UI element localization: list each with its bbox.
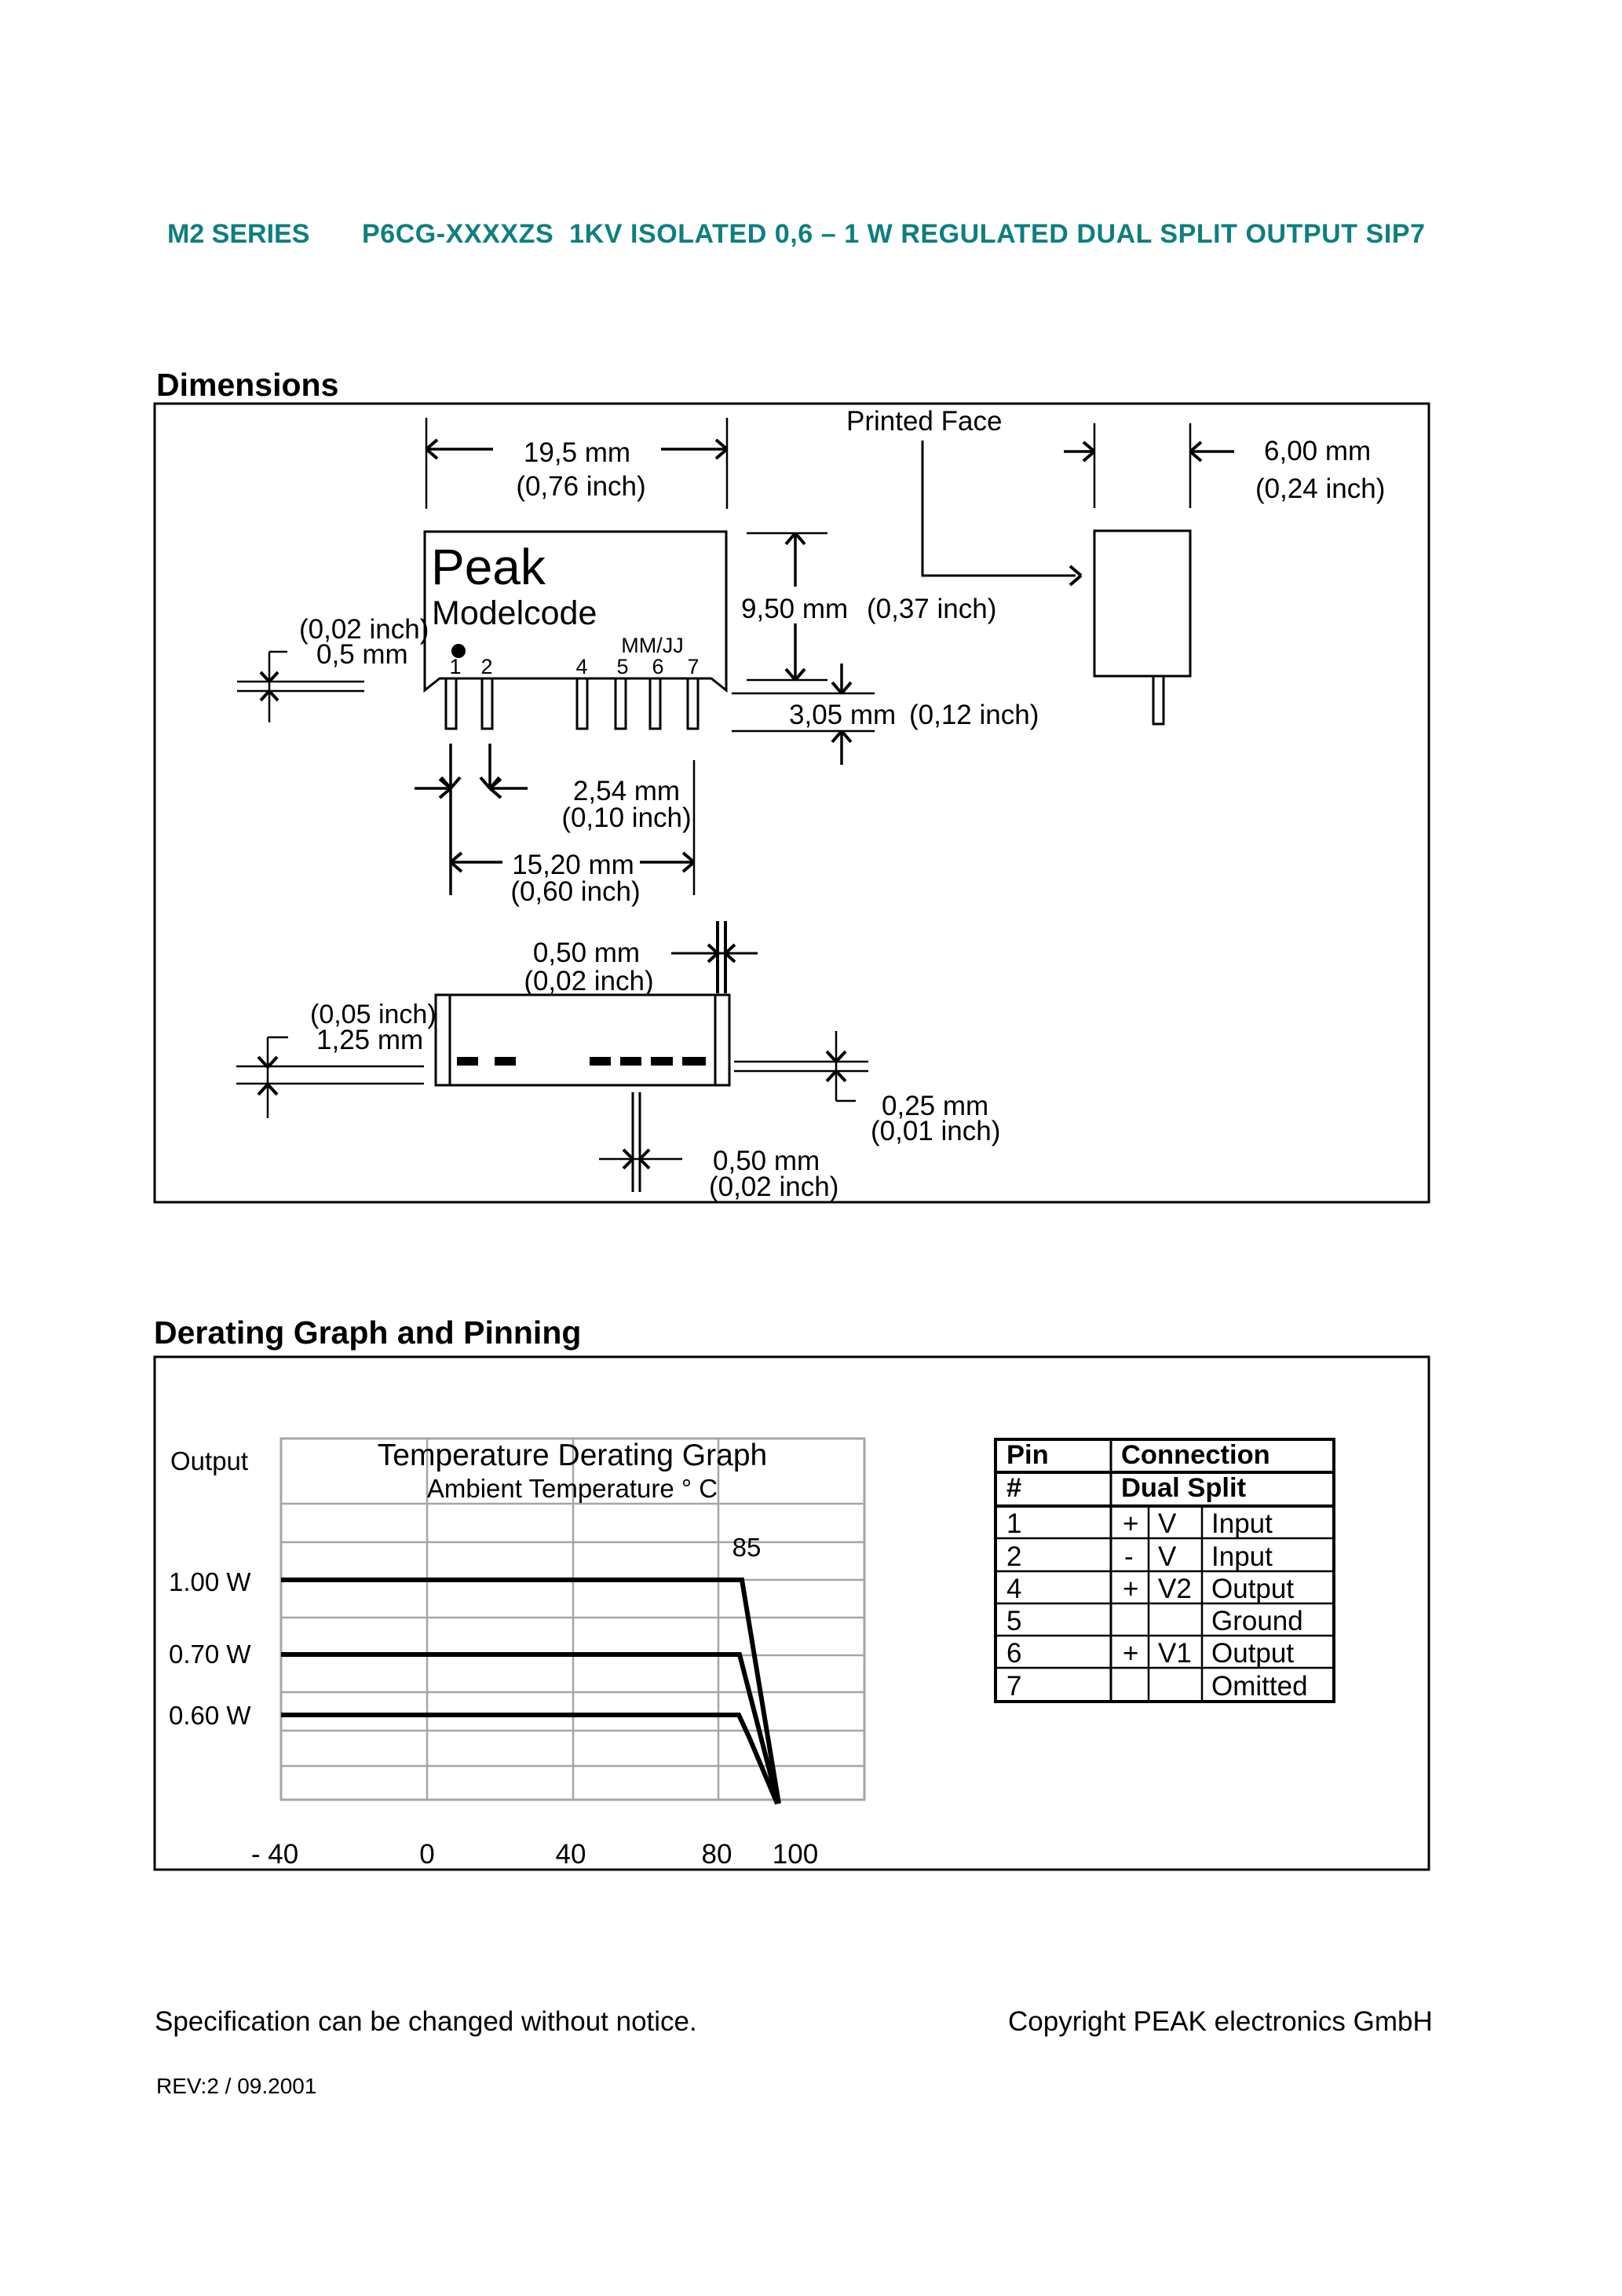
svg-text:0.70 W: 0.70 W xyxy=(169,1640,251,1669)
svg-text:(0,24 inch): (0,24 inch) xyxy=(1255,473,1385,504)
svg-text:3,05 mm: 3,05 mm xyxy=(789,700,896,730)
svg-text:7: 7 xyxy=(687,655,699,678)
svg-text:2: 2 xyxy=(1006,1541,1021,1572)
svg-text:Dual Split: Dual Split xyxy=(1121,1473,1247,1503)
svg-text:Specification can be changed w: Specification can be changed without not… xyxy=(155,2006,697,2037)
svg-text:4: 4 xyxy=(1006,1574,1021,1604)
svg-text:Modelcode: Modelcode xyxy=(432,594,597,632)
svg-text:6: 6 xyxy=(652,655,663,678)
svg-text:(0,02 inch): (0,02 inch) xyxy=(524,966,653,996)
svg-text:1,25 mm: 1,25 mm xyxy=(316,1025,423,1055)
svg-text:P6CG-XXXXZS 1KV ISOLATED 0,6: P6CG-XXXXZS 1KV ISOLATED 0,6 – 1 W REGUL… xyxy=(362,219,1425,249)
svg-text:(0,01 inch): (0,01 inch) xyxy=(871,1116,1000,1146)
svg-text:Temperature Derating Graph: Temperature Derating Graph xyxy=(378,1439,767,1472)
svg-text:- 40: - 40 xyxy=(251,1839,298,1870)
svg-text:0,50 mm: 0,50 mm xyxy=(533,938,640,968)
svg-text:2: 2 xyxy=(480,655,492,678)
svg-text:M2 SERIES: M2 SERIES xyxy=(167,219,309,249)
svg-text:85: 85 xyxy=(732,1533,762,1562)
svg-text:Ground: Ground xyxy=(1211,1606,1303,1636)
svg-text:Ambient Temperature ° C: Ambient Temperature ° C xyxy=(427,1474,718,1503)
svg-text:Dimensions: Dimensions xyxy=(156,367,338,403)
svg-text:100: 100 xyxy=(773,1839,818,1870)
svg-text:Printed Face: Printed Face xyxy=(846,406,1002,437)
svg-text:Input: Input xyxy=(1211,1508,1273,1539)
svg-text:5: 5 xyxy=(616,655,628,678)
svg-text:V1: V1 xyxy=(1158,1638,1192,1669)
svg-text:80: 80 xyxy=(702,1839,732,1870)
svg-text:1.00 W: 1.00 W xyxy=(169,1567,251,1596)
svg-text:(0,10 inch): (0,10 inch) xyxy=(561,803,691,833)
svg-text:V2: V2 xyxy=(1158,1574,1192,1604)
svg-text:V: V xyxy=(1158,1508,1177,1539)
svg-text:7: 7 xyxy=(1006,1671,1021,1702)
svg-text:4: 4 xyxy=(575,655,587,678)
svg-text:19,5 mm: 19,5 mm xyxy=(524,437,630,468)
svg-text:(0,76 inch): (0,76 inch) xyxy=(516,471,645,502)
svg-text:1: 1 xyxy=(1006,1508,1021,1539)
svg-text:1: 1 xyxy=(449,655,461,678)
svg-text:Output: Output xyxy=(1211,1638,1294,1669)
svg-text:#: # xyxy=(1006,1473,1021,1503)
svg-text:(0,37 inch): (0,37 inch) xyxy=(867,594,996,624)
svg-text:40: 40 xyxy=(556,1839,586,1870)
svg-text:+: + xyxy=(1123,1638,1138,1669)
svg-text:5: 5 xyxy=(1006,1606,1021,1636)
svg-text:-: - xyxy=(1124,1541,1134,1572)
svg-text:+: + xyxy=(1123,1574,1138,1604)
svg-text:Omitted: Omitted xyxy=(1211,1671,1308,1702)
svg-text:0,5 mm: 0,5 mm xyxy=(316,639,408,670)
svg-text:9,50 mm: 9,50 mm xyxy=(741,594,848,624)
svg-text:Pin: Pin xyxy=(1006,1440,1049,1470)
svg-text:MM/JJ: MM/JJ xyxy=(621,634,683,657)
svg-text:(0,60 inch): (0,60 inch) xyxy=(510,876,640,907)
svg-text:6: 6 xyxy=(1006,1638,1021,1669)
svg-text:(0,12 inch): (0,12 inch) xyxy=(909,700,1039,730)
svg-text:Output: Output xyxy=(1211,1574,1294,1604)
svg-text:6,00 mm: 6,00 mm xyxy=(1264,436,1371,466)
svg-text:Input: Input xyxy=(1211,1541,1273,1572)
svg-text:REV:2 / 09.2001: REV:2 / 09.2001 xyxy=(156,2074,316,2098)
svg-text:0: 0 xyxy=(419,1839,434,1870)
svg-text:Peak: Peak xyxy=(431,539,546,595)
svg-text:V: V xyxy=(1158,1541,1177,1572)
svg-text:Output: Output xyxy=(170,1446,248,1475)
svg-text:0.60 W: 0.60 W xyxy=(169,1701,251,1730)
svg-text:+: + xyxy=(1123,1508,1138,1539)
svg-text:Copyright PEAK electronics Gmb: Copyright PEAK electronics GmbH xyxy=(1008,2006,1433,2037)
svg-text:(0,02 inch): (0,02 inch) xyxy=(709,1172,838,1202)
svg-text:Derating Graph and Pinning: Derating Graph and Pinning xyxy=(154,1314,581,1351)
svg-text:Connection: Connection xyxy=(1121,1440,1270,1470)
